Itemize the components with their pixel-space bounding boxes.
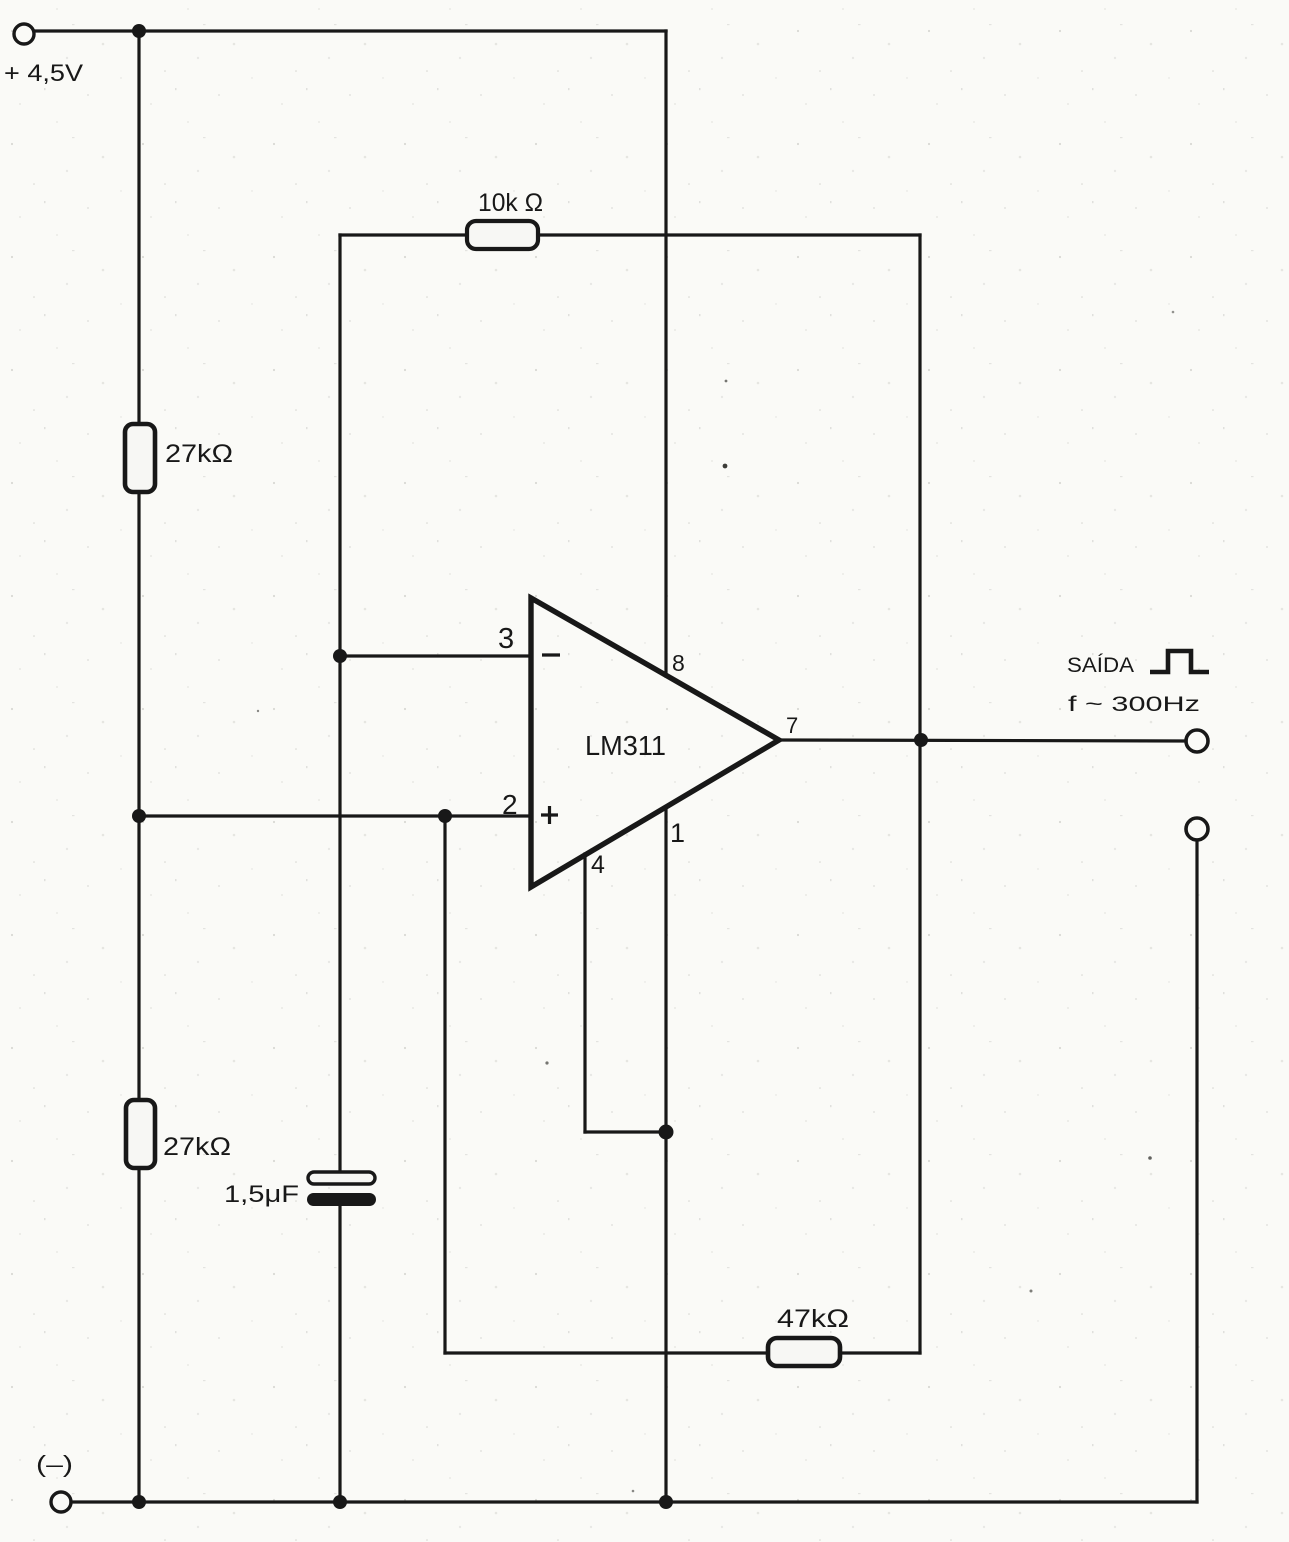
svg-text:10k Ω: 10k Ω [478, 189, 543, 217]
svg-text:4: 4 [591, 851, 605, 879]
svg-text:SAÍDA: SAÍDA [1067, 652, 1135, 677]
svg-text:LM311: LM311 [585, 730, 666, 761]
svg-text:f ~ 300Hz: f ~ 300Hz [1068, 693, 1200, 716]
svg-text:1: 1 [670, 818, 685, 848]
svg-text:7: 7 [786, 713, 798, 738]
svg-text:27kΩ: 27kΩ [165, 440, 233, 468]
svg-text:8: 8 [672, 650, 685, 676]
svg-text:+ 4,5V: + 4,5V [4, 60, 83, 87]
svg-text:1,5μF: 1,5μF [224, 1181, 299, 1208]
svg-text:2: 2 [502, 789, 518, 820]
svg-text:27kΩ: 27kΩ [163, 1133, 231, 1161]
svg-text:(–): (–) [36, 1451, 73, 1477]
svg-text:47kΩ: 47kΩ [777, 1305, 849, 1333]
svg-text:3: 3 [498, 623, 514, 655]
